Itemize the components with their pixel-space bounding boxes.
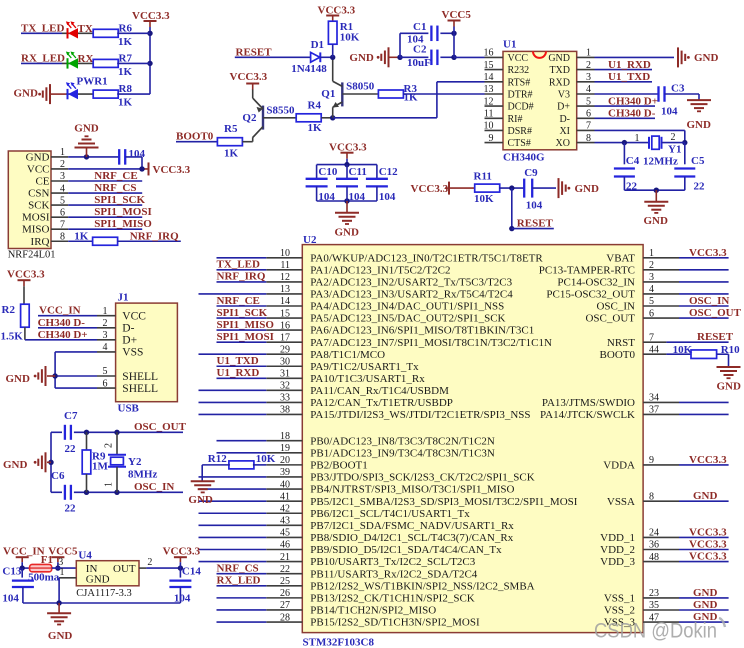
- svg-text:1K: 1K: [308, 122, 323, 134]
- svg-text:C5: C5: [691, 155, 705, 167]
- svg-text:PB8/SDIO_D4/I2C1_SCL/T4C3(7)/C: PB8/SDIO_D4/I2C1_SCL/T4C3(7)/CAN_Rx: [310, 532, 513, 544]
- svg-text:SPI1_SCK: SPI1_SCK: [217, 307, 268, 319]
- svg-text:13: 13: [484, 84, 494, 95]
- svg-text:42: 42: [280, 503, 290, 514]
- svg-text:NRF_CE: NRF_CE: [94, 170, 137, 182]
- svg-text:GND: GND: [717, 381, 742, 393]
- svg-text:C11: C11: [349, 166, 367, 178]
- svg-text:VCC3.3: VCC3.3: [689, 526, 727, 538]
- svg-text:D-: D-: [559, 114, 570, 125]
- svg-text:VCC3.3: VCC3.3: [689, 539, 727, 551]
- svg-text:48: 48: [649, 552, 659, 563]
- svg-text:10K: 10K: [673, 344, 693, 356]
- svg-text:R4: R4: [308, 99, 322, 111]
- svg-text:5: 5: [60, 195, 65, 206]
- svg-text:Q2: Q2: [242, 112, 257, 124]
- svg-text:43: 43: [280, 516, 290, 527]
- svg-text:37: 37: [649, 405, 659, 416]
- svg-text:VCC_IN: VCC_IN: [39, 305, 81, 317]
- svg-text:NRF_IRQ: NRF_IRQ: [217, 271, 266, 283]
- svg-text:PC14-OSC32_IN: PC14-OSC32_IN: [557, 277, 635, 289]
- svg-text:C6: C6: [51, 470, 65, 482]
- svg-text:GND: GND: [74, 123, 99, 135]
- svg-text:45: 45: [280, 528, 290, 539]
- svg-text:TXD: TXD: [549, 65, 570, 76]
- svg-text:2: 2: [60, 159, 65, 170]
- svg-text:PA3/ADC123_IN3/USART2_Rx/T5C4/: PA3/ADC123_IN3/USART2_Rx/T5C4/T2C4: [310, 289, 513, 301]
- svg-text:4: 4: [103, 342, 108, 353]
- svg-text:SPI1_MOSI: SPI1_MOSI: [94, 206, 151, 218]
- svg-text:R11: R11: [474, 170, 492, 182]
- svg-text:1: 1: [649, 248, 654, 259]
- svg-text:PB14/T1CH2N/SPI2_MISO: PB14/T1CH2N/SPI2_MISO: [310, 605, 436, 617]
- svg-text:VCC_IN: VCC_IN: [3, 545, 45, 557]
- svg-text:13: 13: [280, 284, 290, 295]
- svg-text:21: 21: [280, 552, 290, 563]
- svg-text:GND: GND: [644, 215, 669, 227]
- svg-text:GND: GND: [687, 119, 712, 131]
- svg-text:10K: 10K: [474, 193, 494, 205]
- svg-text:V3: V3: [558, 90, 570, 101]
- svg-text:GND: GND: [48, 630, 73, 642]
- svg-text:11: 11: [484, 109, 494, 120]
- svg-text:C10: C10: [318, 166, 337, 178]
- svg-text:RX: RX: [78, 53, 94, 65]
- svg-text:R2: R2: [2, 304, 16, 316]
- svg-text:D1: D1: [311, 39, 324, 51]
- svg-text:PA14/JTCK/SWCLK: PA14/JTCK/SWCLK: [540, 409, 635, 421]
- svg-text:R7: R7: [119, 52, 133, 64]
- svg-text:U1: U1: [503, 39, 516, 51]
- svg-text:VCC3.3: VCC3.3: [153, 164, 191, 176]
- svg-text:SPI1_SCK: SPI1_SCK: [94, 194, 145, 206]
- svg-text:U4: U4: [78, 550, 92, 562]
- svg-text:CJA1117-3.3: CJA1117-3.3: [76, 588, 132, 599]
- svg-text:3: 3: [649, 272, 654, 283]
- svg-text:PA12/CAN_Tx/T1ETR/USBDP: PA12/CAN_Tx/T1ETR/USBDP: [310, 397, 453, 409]
- svg-text:16: 16: [484, 48, 494, 59]
- svg-text:GND: GND: [26, 151, 50, 163]
- svg-text:SPI1_MISO: SPI1_MISO: [217, 319, 275, 331]
- svg-text:2: 2: [147, 557, 152, 568]
- svg-text:CH340 D-: CH340 D-: [38, 317, 86, 329]
- svg-text:104: 104: [2, 593, 19, 605]
- svg-text:DTR#: DTR#: [508, 90, 533, 101]
- svg-text:C12: C12: [379, 166, 398, 178]
- svg-text:2: 2: [649, 260, 654, 271]
- svg-text:GND: GND: [14, 88, 39, 100]
- svg-text:PA6/ADC123_IN6/SPI1_MISO/T8T1B: PA6/ADC123_IN6/SPI1_MISO/T8T1BKIN/T3C1: [310, 325, 534, 337]
- svg-text:OSC_OUT: OSC_OUT: [585, 313, 635, 325]
- svg-text:GND: GND: [575, 183, 600, 195]
- svg-text:DSR#: DSR#: [508, 126, 532, 137]
- svg-text:R12: R12: [208, 453, 227, 465]
- svg-text:41: 41: [280, 491, 290, 502]
- svg-text:PB10/USART3_Tx/I2C2_SCL/T2C3: PB10/USART3_Tx/I2C2_SCL/T2C3: [310, 556, 475, 568]
- svg-text:D+: D+: [122, 335, 137, 347]
- svg-text:39: 39: [280, 467, 290, 478]
- svg-text:1K: 1K: [118, 36, 133, 48]
- svg-text:44: 44: [649, 344, 659, 355]
- svg-text:2: 2: [586, 60, 591, 71]
- svg-text:VCC3.3: VCC3.3: [230, 71, 268, 83]
- svg-text:GND: GND: [86, 573, 110, 585]
- svg-text:104: 104: [129, 148, 146, 160]
- svg-text:10K: 10K: [340, 32, 360, 44]
- svg-text:CH340 D-: CH340 D-: [608, 108, 656, 120]
- svg-text:104: 104: [318, 191, 335, 203]
- svg-text:VCC5: VCC5: [442, 9, 472, 21]
- svg-text:GND: GND: [3, 459, 28, 471]
- svg-text:C2: C2: [413, 43, 427, 55]
- svg-text:23: 23: [649, 588, 659, 599]
- svg-text:40: 40: [280, 479, 290, 490]
- svg-text:RESET: RESET: [517, 217, 554, 229]
- svg-text:1: 1: [586, 48, 591, 59]
- svg-text:14: 14: [484, 72, 494, 83]
- svg-text:PA5/ADC123_IN5/DAC_OUT2/SPI1_S: PA5/ADC123_IN5/DAC_OUT2/SPI1_SCK: [310, 313, 505, 325]
- svg-text:RESET: RESET: [697, 331, 734, 343]
- svg-text:PA7/ADC123_IN7/SPI1_MOSI/T8C1N: PA7/ADC123_IN7/SPI1_MOSI/T8C1N/T3C2/T1C1…: [310, 337, 552, 349]
- svg-text:TX: TX: [78, 23, 93, 35]
- svg-text:XI: XI: [559, 126, 570, 137]
- svg-text:22: 22: [694, 180, 706, 192]
- svg-text:104: 104: [379, 191, 396, 203]
- svg-text:TX_LED: TX_LED: [217, 259, 260, 271]
- svg-text:10: 10: [280, 248, 290, 259]
- svg-text:U1_TXD: U1_TXD: [608, 71, 650, 83]
- svg-text:PA11/CAN_Rx/T1C4/USBDM: PA11/CAN_Rx/T1C4/USBDM: [310, 385, 449, 397]
- svg-text:22: 22: [65, 443, 77, 455]
- svg-text:1.5K: 1.5K: [1, 330, 24, 342]
- svg-text:NRST: NRST: [607, 337, 635, 349]
- svg-text:BOOT0: BOOT0: [600, 349, 636, 361]
- svg-text:OSC_OUT: OSC_OUT: [689, 307, 742, 319]
- svg-text:1: 1: [635, 133, 640, 144]
- svg-text:8: 8: [649, 491, 654, 502]
- svg-text:25: 25: [280, 576, 290, 587]
- svg-text:1K: 1K: [118, 97, 133, 109]
- svg-text:CE: CE: [35, 176, 49, 188]
- svg-text:U1_RXD: U1_RXD: [217, 367, 260, 379]
- svg-text:C4: C4: [626, 155, 640, 167]
- svg-text:OSC_OUT: OSC_OUT: [134, 421, 187, 433]
- svg-text:10uF: 10uF: [407, 57, 431, 69]
- svg-text:PA9/T1C2/USART1_Tx: PA9/T1C2/USART1_Tx: [310, 361, 419, 373]
- svg-text:36: 36: [649, 540, 659, 551]
- svg-text:VCC3.3: VCC3.3: [689, 551, 727, 563]
- svg-text:3: 3: [60, 171, 65, 182]
- svg-text:PA8/T1C1/MCO: PA8/T1C1/MCO: [310, 349, 385, 361]
- svg-text:15: 15: [280, 308, 290, 319]
- svg-text:SPI1_MOSI: SPI1_MOSI: [217, 331, 274, 343]
- svg-text:5: 5: [586, 96, 591, 107]
- svg-text:XO: XO: [556, 138, 570, 149]
- svg-text:38: 38: [280, 405, 290, 416]
- svg-text:NRF_CS: NRF_CS: [94, 182, 136, 194]
- svg-text:PC15-OSC32_OUT: PC15-OSC32_OUT: [546, 289, 635, 301]
- svg-text:19: 19: [280, 443, 290, 454]
- svg-text:1: 1: [60, 567, 65, 578]
- svg-text:30: 30: [280, 356, 290, 367]
- svg-text:3: 3: [103, 330, 108, 341]
- svg-text:2: 2: [103, 318, 108, 329]
- svg-text:Y1: Y1: [668, 144, 681, 156]
- svg-text:RX_LED: RX_LED: [217, 575, 261, 587]
- svg-text:PB6/I2C1_SCL/T4C1/USART1_Tx: PB6/I2C1_SCL/T4C1/USART1_Tx: [310, 508, 470, 520]
- svg-text:VCC: VCC: [27, 163, 50, 175]
- svg-text:9: 9: [489, 133, 494, 144]
- svg-text:10K: 10K: [256, 453, 276, 465]
- svg-text:PA15/JTDI/I2S3_WS/JTDI/T2C1ETR: PA15/JTDI/I2S3_WS/JTDI/T2C1ETR/SPI3_NSS: [310, 409, 530, 421]
- svg-text:CH340 D+: CH340 D+: [38, 329, 88, 341]
- svg-text:RI#: RI#: [508, 114, 523, 125]
- svg-text:BOOT0: BOOT0: [176, 131, 214, 143]
- svg-text:NRF24L01: NRF24L01: [8, 250, 56, 261]
- svg-text:VCC3.3: VCC3.3: [689, 454, 727, 466]
- svg-text:PA10/T1C3/USART1_Rx: PA10/T1C3/USART1_Rx: [310, 373, 425, 385]
- svg-text:PB13/I2S2_CK/T1CH1N/SPI2_SCK: PB13/I2S2_CK/T1CH1N/SPI2_SCK: [310, 592, 474, 604]
- svg-text:NRF_CS: NRF_CS: [217, 562, 259, 574]
- svg-text:12: 12: [484, 96, 494, 107]
- svg-text:6: 6: [60, 207, 65, 218]
- svg-text:17: 17: [280, 332, 290, 343]
- svg-text:4: 4: [649, 284, 654, 295]
- svg-text:104: 104: [349, 191, 366, 203]
- svg-text:S8050: S8050: [346, 80, 375, 92]
- svg-text:26: 26: [280, 588, 290, 599]
- svg-text:20: 20: [280, 455, 290, 466]
- svg-text:NRF_CE: NRF_CE: [217, 295, 260, 307]
- svg-text:VCC3.3: VCC3.3: [329, 141, 367, 153]
- svg-text:D-: D-: [122, 323, 134, 335]
- svg-text:SPI1_MISO: SPI1_MISO: [94, 218, 152, 230]
- svg-text:GND: GND: [693, 490, 718, 502]
- svg-text:VCC3.3: VCC3.3: [411, 183, 449, 195]
- svg-text:RTS#: RTS#: [508, 77, 531, 88]
- svg-text:1K: 1K: [118, 66, 133, 78]
- svg-text:VSS_1: VSS_1: [604, 593, 635, 605]
- svg-text:PA4/ADC123_IN4/DAC_OUT1/SPI1_N: PA4/ADC123_IN4/DAC_OUT1/SPI1_NSS: [310, 301, 504, 313]
- svg-text:7: 7: [586, 121, 591, 132]
- svg-text:VCC: VCC: [508, 53, 529, 64]
- svg-text:6: 6: [649, 308, 654, 319]
- svg-text:VSS: VSS: [122, 347, 143, 359]
- svg-text:PA1/ADC123_IN1/T5C2/T2C2: PA1/ADC123_IN1/T5C2/T2C2: [310, 264, 450, 276]
- svg-text:U2: U2: [303, 234, 317, 246]
- svg-text:SCK: SCK: [28, 200, 49, 212]
- svg-text:CH340 D+: CH340 D+: [608, 96, 658, 108]
- svg-text:C14: C14: [182, 566, 201, 578]
- svg-text:14: 14: [280, 296, 290, 307]
- svg-text:IRQ: IRQ: [31, 236, 50, 248]
- svg-text:U1_RXD: U1_RXD: [608, 59, 651, 71]
- svg-text:5: 5: [649, 296, 654, 307]
- svg-text:8: 8: [586, 133, 591, 144]
- svg-text:1N4148: 1N4148: [291, 63, 327, 75]
- svg-text:34: 34: [649, 393, 659, 404]
- svg-text:4: 4: [586, 84, 591, 95]
- svg-text:OSC_IN: OSC_IN: [596, 301, 635, 313]
- svg-text:VDD_3: VDD_3: [600, 556, 635, 568]
- svg-text:PB5/I2C1_SMBA/I2S3_SD/SPI3_MOS: PB5/I2C1_SMBA/I2S3_SD/SPI3_MOSI/T3C2/SPI…: [310, 496, 577, 508]
- svg-text:PB15/I2S2_SD/T1CH3N/SPI2_MOSI: PB15/I2S2_SD/T1CH3N/SPI2_MOSI: [310, 617, 480, 629]
- svg-text:GND: GND: [188, 494, 213, 506]
- svg-text:PB7/I2C1_SDA/FSMC_NADV/USART1_: PB7/I2C1_SDA/FSMC_NADV/USART1_Rx: [310, 520, 514, 532]
- svg-text:STM32F103C8: STM32F103C8: [303, 636, 375, 648]
- svg-text:DCD#: DCD#: [508, 102, 534, 113]
- svg-text:VDD_1: VDD_1: [600, 532, 635, 544]
- svg-text:27: 27: [280, 600, 290, 611]
- svg-text:18: 18: [280, 431, 290, 442]
- svg-text:8: 8: [60, 231, 65, 242]
- svg-text:16: 16: [280, 320, 290, 331]
- svg-text:R5: R5: [224, 123, 238, 135]
- svg-text:CSN: CSN: [28, 188, 49, 200]
- svg-text:GND: GND: [548, 53, 570, 64]
- svg-text:R6: R6: [119, 22, 133, 34]
- svg-text:SHELL: SHELL: [122, 383, 158, 395]
- svg-text:46: 46: [280, 540, 290, 551]
- svg-text:22: 22: [65, 502, 77, 514]
- svg-text:F1: F1: [41, 554, 53, 566]
- svg-text:22: 22: [280, 564, 290, 575]
- svg-text:VCC3.3: VCC3.3: [163, 545, 201, 557]
- svg-text:RXD: RXD: [549, 77, 570, 88]
- svg-text:C13: C13: [2, 566, 21, 578]
- svg-text:R8: R8: [119, 83, 133, 95]
- svg-text:PB2/BOOT1: PB2/BOOT1: [310, 459, 367, 471]
- svg-text:3: 3: [586, 72, 591, 83]
- svg-text:500ma: 500ma: [28, 572, 60, 584]
- svg-text:PA13/JTMS/SWDIO: PA13/JTMS/SWDIO: [542, 397, 635, 409]
- svg-text:PC13-TAMPER-RTC: PC13-TAMPER-RTC: [539, 264, 635, 276]
- svg-text:6: 6: [103, 378, 108, 389]
- svg-text:28: 28: [280, 612, 290, 623]
- svg-text:CH340G: CH340G: [503, 152, 545, 164]
- svg-text:J1: J1: [118, 291, 129, 303]
- svg-text:VCC3.3: VCC3.3: [689, 247, 727, 259]
- svg-text:31: 31: [280, 369, 290, 380]
- svg-text:104: 104: [526, 200, 543, 212]
- svg-text:PB3/JTDO/SPI3_SCK/I2S3_CK/T2C2: PB3/JTDO/SPI3_SCK/I2S3_CK/T2C2/SPI1_SCK: [310, 472, 534, 484]
- svg-text:12MHz: 12MHz: [643, 155, 678, 167]
- svg-text:D+: D+: [557, 102, 570, 113]
- svg-text:PA0/WKUP/ADC123_IN0/T2C1ETR/T5: PA0/WKUP/ADC123_IN0/T2C1ETR/T5C1/T8ETR: [310, 252, 543, 264]
- svg-text:104: 104: [661, 105, 678, 117]
- svg-text:7: 7: [60, 219, 65, 230]
- svg-text:PWR1: PWR1: [77, 75, 108, 87]
- svg-text:USB: USB: [118, 403, 140, 415]
- svg-text:4: 4: [60, 183, 65, 194]
- svg-text:5: 5: [103, 366, 108, 377]
- svg-text:GND: GND: [335, 226, 360, 238]
- svg-text:Q1: Q1: [321, 88, 335, 100]
- svg-text:VSSA: VSSA: [607, 496, 635, 508]
- svg-text:R232: R232: [508, 65, 530, 76]
- svg-text:MOSI: MOSI: [22, 212, 50, 224]
- svg-text:6: 6: [586, 109, 591, 120]
- svg-text:GND: GND: [694, 52, 719, 64]
- svg-text:29: 29: [280, 344, 290, 355]
- svg-text:GND: GND: [6, 373, 31, 385]
- svg-text:CTS#: CTS#: [508, 138, 531, 149]
- svg-text:VDDA: VDDA: [603, 460, 635, 472]
- svg-text:1: 1: [104, 482, 115, 487]
- svg-text:1M: 1M: [92, 461, 109, 473]
- svg-text:GND: GND: [349, 52, 374, 64]
- svg-text:24: 24: [649, 528, 659, 539]
- svg-text:32: 32: [280, 381, 290, 392]
- svg-text:VCC: VCC: [122, 311, 146, 323]
- svg-text:2: 2: [671, 132, 676, 143]
- svg-text:MISO: MISO: [22, 224, 50, 236]
- svg-text:SHELL: SHELL: [122, 371, 158, 383]
- svg-text:C7: C7: [64, 410, 78, 422]
- svg-text:C1: C1: [413, 21, 426, 33]
- svg-text:CSDN @Dokin: CSDN @Dokin: [594, 620, 717, 643]
- svg-text:1K: 1K: [224, 147, 239, 159]
- svg-text:35: 35: [649, 600, 659, 611]
- svg-text:2: 2: [104, 443, 115, 448]
- svg-text:9: 9: [649, 455, 654, 466]
- svg-text:GND: GND: [693, 599, 718, 611]
- svg-text:10: 10: [484, 121, 494, 132]
- svg-text:VCC3.3: VCC3.3: [7, 269, 45, 281]
- svg-text:NRF_IRQ: NRF_IRQ: [130, 231, 179, 243]
- svg-text:C3: C3: [671, 82, 685, 94]
- svg-text:PB1/ADC123_IN9/T3C4/T8C3N/T1C3: PB1/ADC123_IN9/T3C4/T8C3N/T1C3N: [310, 447, 495, 459]
- svg-text:33: 33: [280, 393, 290, 404]
- svg-text:U1_TXD: U1_TXD: [217, 355, 259, 367]
- svg-text:VSS_2: VSS_2: [604, 605, 635, 617]
- svg-text:7: 7: [649, 332, 654, 343]
- svg-text:VBAT: VBAT: [606, 252, 635, 264]
- svg-text:Y2: Y2: [128, 456, 142, 468]
- svg-text:12: 12: [280, 272, 290, 283]
- svg-text:OSC_IN: OSC_IN: [689, 295, 729, 307]
- svg-text:PB0/ADC123_IN8/T3C3/T8C2N/T1C2: PB0/ADC123_IN8/T3C3/T8C2N/T1C2N: [310, 435, 495, 447]
- svg-text:15: 15: [484, 60, 494, 71]
- svg-text:C9: C9: [524, 167, 538, 179]
- svg-text:11: 11: [280, 260, 290, 271]
- svg-text:PA2/ADC123_IN2/USART2_Tx/T5C3/: PA2/ADC123_IN2/USART2_Tx/T5C3/T2C3: [310, 277, 512, 289]
- svg-text:PB4/NJTRST/SPI3_MISO/T3C1/SPI1: PB4/NJTRST/SPI3_MISO/T3C1/SPI1_MISO: [310, 484, 514, 496]
- svg-text:PB11/USART3_Rx/I2C2_SDA/T2C4: PB11/USART3_Rx/I2C2_SDA/T2C4: [310, 568, 478, 580]
- svg-text:S8550: S8550: [266, 105, 295, 117]
- svg-text:8MHz: 8MHz: [128, 468, 157, 480]
- svg-text:VDD_2: VDD_2: [600, 544, 635, 556]
- svg-text:1: 1: [60, 147, 65, 158]
- svg-text:OSC_IN: OSC_IN: [134, 481, 174, 493]
- svg-text:1K: 1K: [74, 231, 89, 243]
- svg-text:OUT: OUT: [113, 563, 136, 575]
- svg-text:1: 1: [103, 306, 108, 317]
- svg-text:PB9/SDIO_D5/I2C1_SDA/T4C4/CAN_: PB9/SDIO_D5/I2C1_SDA/T4C4/CAN_Tx: [310, 544, 502, 556]
- svg-text:GND: GND: [693, 587, 718, 599]
- svg-text:PB12/I2S2_WS/T1BKIN/SPI2_NSS/I: PB12/I2S2_WS/T1BKIN/SPI2_NSS/I2C2_SMBA: [310, 580, 534, 592]
